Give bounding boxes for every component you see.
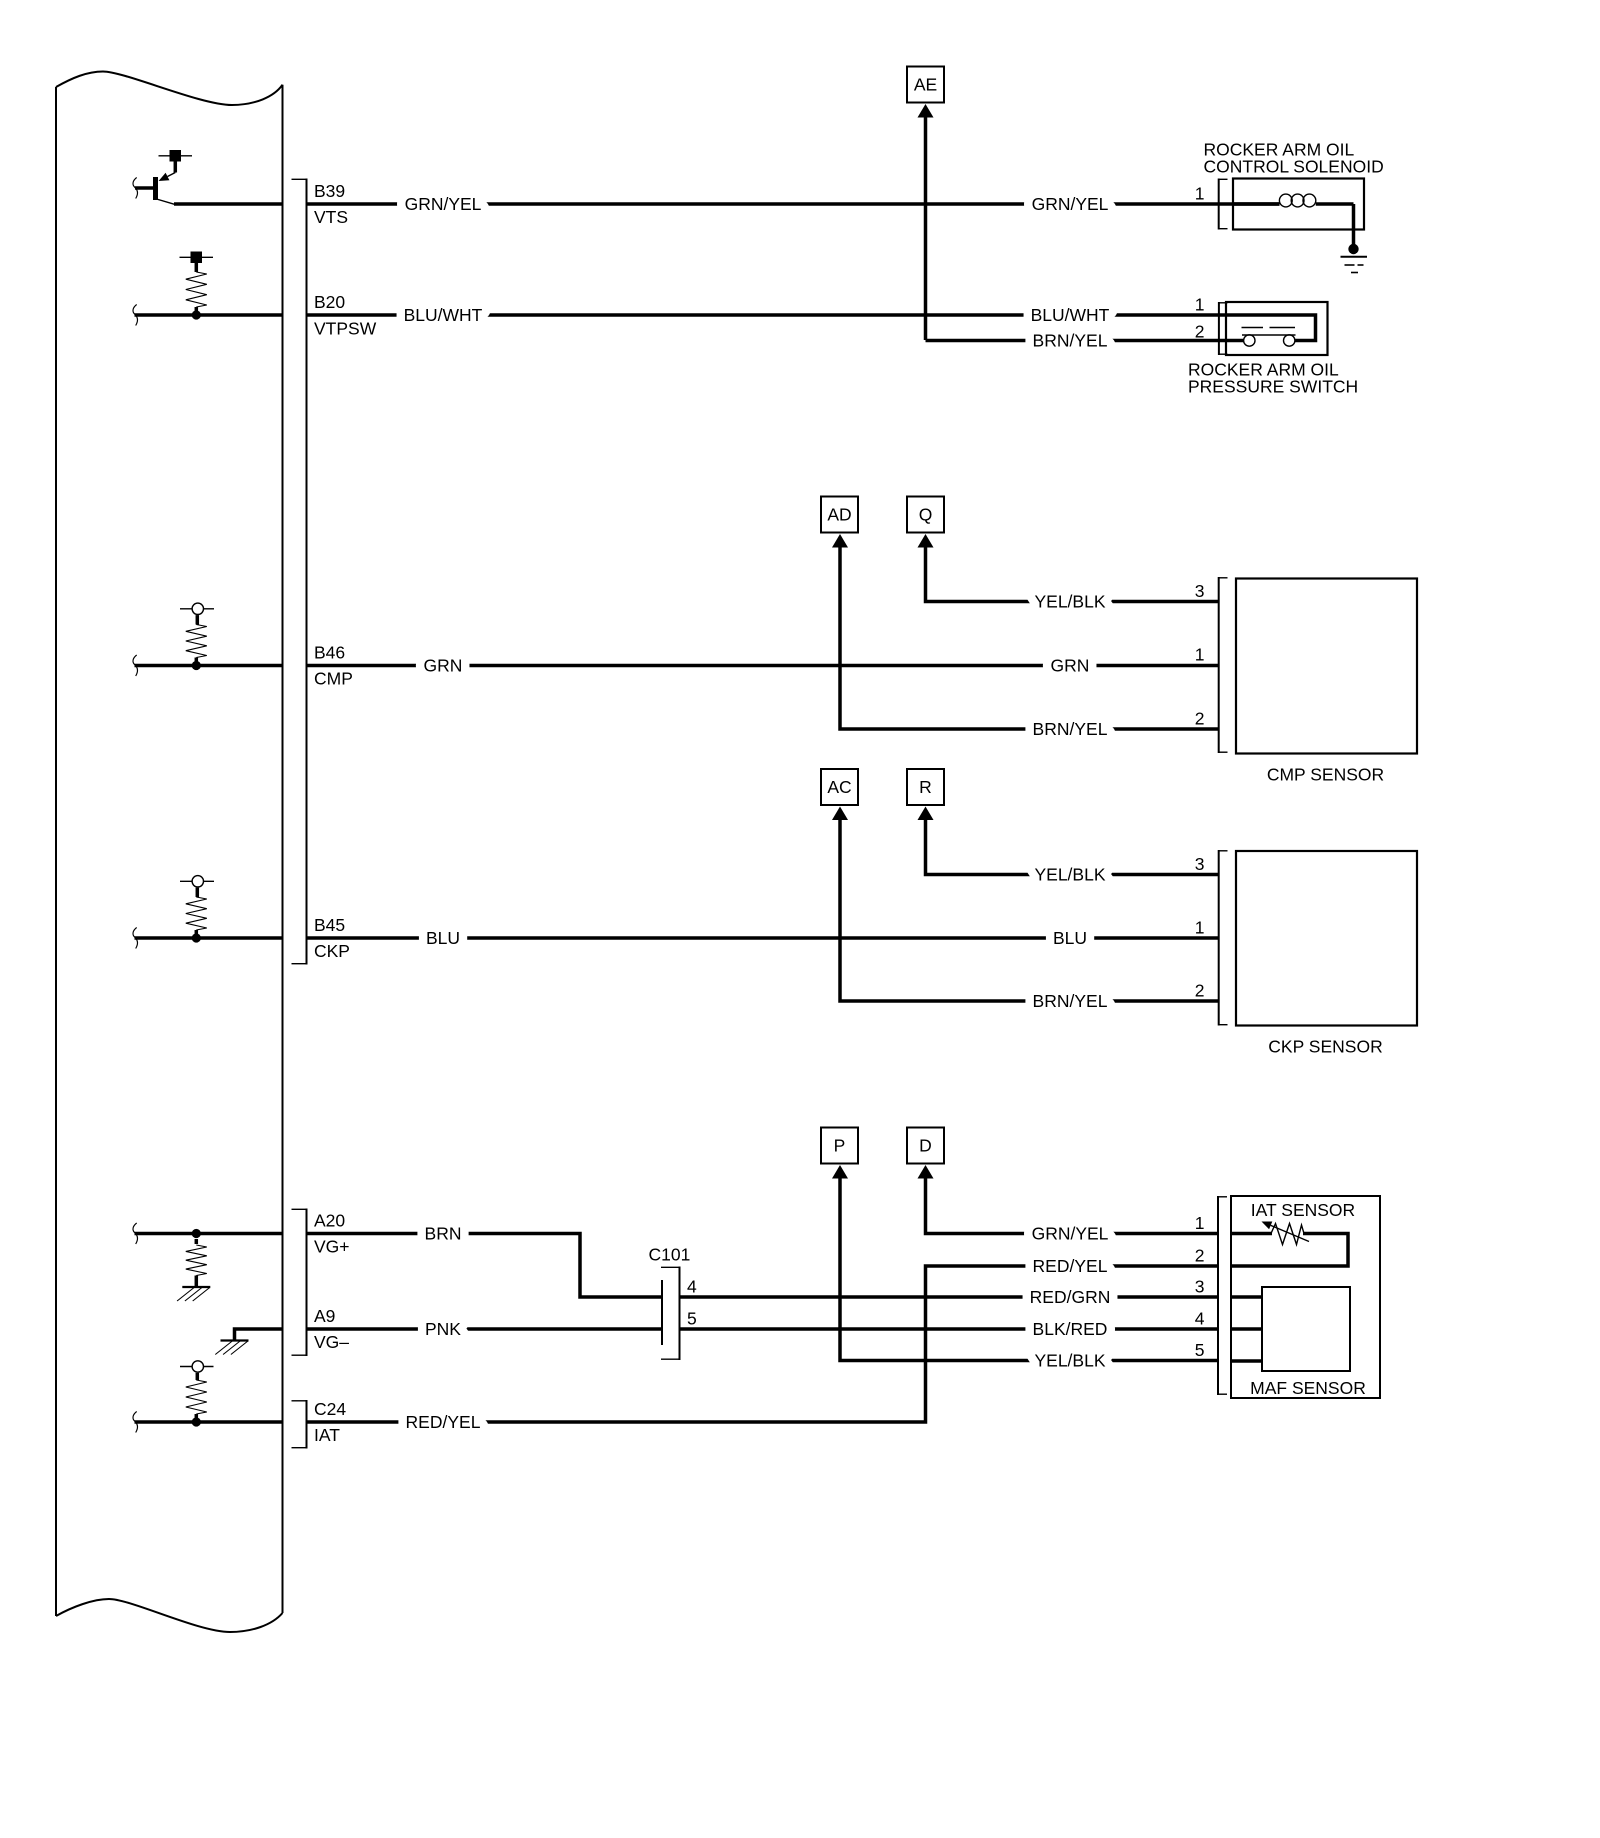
svg-text:4: 4 — [1195, 1309, 1205, 1329]
connector box R — [907, 769, 944, 805]
svg-text:1: 1 — [1195, 645, 1205, 665]
svg-text:BLK/RED: BLK/RED — [1033, 1319, 1108, 1339]
component box: rocker arm oil pressure switch — [1226, 302, 1328, 355]
svg-text:PNK: PNK — [425, 1319, 461, 1339]
ground symbol G101 — [1341, 256, 1368, 258]
svg-text:3: 3 — [1195, 581, 1205, 601]
ECM pin bracket C24 — [306, 1400, 308, 1449]
ECM connector block outline (torn edges) — [55, 87, 57, 1616]
ECM pin bracket B39-B45 — [306, 179, 308, 965]
wire A9 internal segment — [235, 1329, 283, 1341]
wire BRN A20 to C101 pin 4 — [307, 1234, 662, 1298]
junction dot A20 — [192, 1229, 201, 1238]
svg-text:BLU/WHT: BLU/WHT — [404, 305, 483, 325]
svg-text:PRESSURE SWITCH: PRESSURE SWITCH — [1188, 377, 1358, 397]
svg-text:Q: Q — [919, 505, 933, 525]
svg-text:YEL/BLK: YEL/BLK — [1034, 1351, 1105, 1371]
internal resistor to ground (VG+ A20) — [195, 1239, 199, 1244]
junction dot (solenoid ground) — [1348, 244, 1358, 254]
arrow to AC — [832, 807, 848, 821]
svg-text:D: D — [919, 1136, 932, 1156]
svg-text:BRN: BRN — [425, 1224, 462, 1244]
connector box P — [821, 1128, 858, 1164]
component box: CMP sensor — [1236, 579, 1417, 754]
svg-text:AC: AC — [827, 777, 851, 797]
svg-text:RED/YEL: RED/YEL — [406, 1412, 481, 1432]
svg-text:GRN/YEL: GRN/YEL — [1032, 1224, 1109, 1244]
svg-text:B45: B45 — [314, 915, 345, 935]
svg-text:B46: B46 — [314, 643, 345, 663]
arrow to Q — [918, 534, 934, 548]
pin bracket (solenoid) — [1218, 179, 1220, 230]
arrow to D — [918, 1165, 934, 1179]
arrow to AE — [918, 104, 934, 118]
component box: CKP sensor — [1236, 851, 1417, 1026]
svg-text:GRN/YEL: GRN/YEL — [1032, 194, 1109, 214]
wire A20 internal segment — [135, 1232, 283, 1236]
svg-text:C24: C24 — [314, 1399, 346, 1419]
wire B46 internal segment — [135, 664, 283, 668]
pin bracket (pressure switch) — [1218, 302, 1220, 355]
internal reference pull-up (CMP B46) — [180, 608, 214, 610]
svg-text:VTS: VTS — [314, 207, 348, 227]
svg-text:AD: AD — [827, 505, 851, 525]
svg-text:B20: B20 — [314, 292, 345, 312]
connector box AC — [821, 769, 858, 805]
connector box AD — [821, 497, 858, 533]
in-line connector C101 — [661, 1280, 663, 1345]
svg-text:GRN: GRN — [1051, 656, 1090, 676]
transistor Q1 (VTS output driver) — [170, 150, 182, 162]
connector box AE — [907, 67, 944, 103]
svg-text:A9: A9 — [314, 1306, 335, 1326]
wire GRN B46 to CMP sensor pin 1 — [307, 664, 1219, 668]
chassis ground (VG- A9) — [221, 1339, 249, 1341]
svg-text:3: 3 — [1195, 1277, 1205, 1297]
svg-text:CMP: CMP — [314, 669, 353, 689]
svg-text:AE: AE — [914, 75, 937, 95]
svg-text:GRN: GRN — [424, 656, 463, 676]
svg-text:YEL/BLK: YEL/BLK — [1034, 865, 1105, 885]
svg-text:BLU: BLU — [1053, 928, 1087, 948]
svg-text:RED/GRN: RED/GRN — [1030, 1287, 1111, 1307]
junction dot B45 — [192, 933, 201, 942]
svg-text:VTPSW: VTPSW — [314, 318, 377, 338]
internal reference pull-up (CKP B45) — [180, 880, 214, 882]
arrow to R — [918, 807, 934, 821]
svg-text:4: 4 — [687, 1277, 697, 1297]
wire B20 internal segment — [135, 313, 283, 317]
MAF pin stubs — [1231, 1295, 1262, 1299]
wire-break squiggle (Q1 base lead) — [133, 178, 137, 199]
wire BLU/WHT B20 to pressure switch pin 1 — [307, 315, 1316, 341]
connector box D — [907, 1128, 944, 1164]
svg-text:CMP SENSOR: CMP SENSOR — [1267, 765, 1384, 785]
svg-text:BRN/YEL: BRN/YEL — [1033, 331, 1108, 351]
MAF sensor inner element box — [1262, 1287, 1350, 1371]
svg-text:2: 2 — [1195, 709, 1205, 729]
svg-text:2: 2 — [1195, 322, 1205, 342]
svg-text:GRN/YEL: GRN/YEL — [405, 194, 482, 214]
svg-text:VG–: VG– — [314, 1332, 349, 1352]
solenoid coil L1 — [1233, 202, 1280, 206]
svg-text:IAT SENSOR: IAT SENSOR — [1251, 1200, 1355, 1220]
svg-text:CKP SENSOR: CKP SENSOR — [1268, 1037, 1382, 1057]
svg-text:CONTROL SOLENOID: CONTROL SOLENOID — [1204, 157, 1384, 177]
ECM pin bracket A20-A9 — [306, 1209, 308, 1357]
wire-break squiggle (B46) — [133, 655, 137, 676]
svg-text:1: 1 — [1195, 184, 1205, 204]
wire-break squiggle (B45) — [133, 928, 137, 949]
pressure switch S1 contacts — [1244, 335, 1255, 346]
svg-text:BRN/YEL: BRN/YEL — [1033, 719, 1108, 739]
svg-text:MAF SENSOR: MAF SENSOR — [1250, 1378, 1366, 1398]
wire B39 internal segment — [174, 202, 283, 206]
svg-text:3: 3 — [1195, 854, 1205, 874]
svg-text:BRN/YEL: BRN/YEL — [1033, 991, 1108, 1011]
thermistor RT1 (IAT) between pins 1 and 2 — [1231, 1232, 1272, 1236]
arrow to P — [832, 1165, 848, 1179]
wire GRN/YEL B39 to solenoid — [307, 202, 1280, 206]
svg-text:VG+: VG+ — [314, 1237, 350, 1257]
svg-text:1: 1 — [1195, 295, 1205, 315]
wire B45 internal segment — [135, 936, 283, 940]
svg-text:B39: B39 — [314, 181, 345, 201]
arrow to AD — [832, 534, 848, 548]
svg-text:5: 5 — [1195, 1340, 1205, 1360]
svg-text:RED/YEL: RED/YEL — [1033, 1256, 1108, 1276]
svg-text:IAT: IAT — [314, 1425, 340, 1445]
pin bracket (CKP sensor) — [1218, 850, 1220, 1026]
wire BLU B45 to CKP sensor pin 1 — [307, 936, 1219, 940]
wire RED/YEL C24 to MAF pin 2 — [307, 1266, 1218, 1422]
svg-text:BLU: BLU — [426, 928, 460, 948]
internal reference pull-up (IAT C24) — [180, 1366, 214, 1368]
connector box Q — [907, 497, 944, 533]
svg-text:R: R — [919, 777, 932, 797]
wire-break squiggle (B20) — [133, 305, 137, 326]
svg-text:1: 1 — [1195, 1213, 1205, 1233]
wire PNK A9 to C101 pin 5 — [307, 1327, 662, 1331]
junction dot C24 — [192, 1417, 201, 1426]
svg-text:C101: C101 — [649, 1245, 691, 1265]
internal pull-up resistor (VTPSW) to B+ — [191, 252, 203, 264]
svg-text:2: 2 — [1195, 981, 1205, 1001]
wire-break squiggle (A20) — [133, 1223, 137, 1244]
svg-text:P: P — [834, 1136, 846, 1156]
svg-text:CKP: CKP — [314, 941, 350, 961]
chassis ground (A20 resistor) — [182, 1286, 210, 1288]
svg-text:2: 2 — [1195, 1246, 1205, 1266]
component box: IAT/MAF sensor — [1231, 1196, 1380, 1398]
wire C24 internal segment — [135, 1420, 283, 1424]
svg-text:1: 1 — [1195, 918, 1205, 938]
wire BRN/YEL pressure switch pin 2 to AE — [926, 339, 1244, 343]
wire RED/GRN C101 pin 4 to MAF pin 3 — [680, 1295, 1218, 1299]
wire BLK/RED C101 pin 5 to MAF pin 4 — [680, 1327, 1218, 1331]
svg-text:5: 5 — [687, 1309, 697, 1329]
wire-break squiggle (C24) — [133, 1412, 137, 1433]
svg-text:A20: A20 — [314, 1211, 345, 1231]
junction dot B46 — [192, 661, 201, 670]
pin bracket (CMP sensor) — [1218, 577, 1220, 753]
component box: rocker arm oil control solenoid — [1233, 179, 1364, 230]
svg-text:BLU/WHT: BLU/WHT — [1031, 305, 1110, 325]
junction dot B20 — [192, 310, 201, 319]
pin bracket (MAF sensor) — [1217, 1196, 1219, 1395]
svg-text:YEL/BLK: YEL/BLK — [1034, 592, 1105, 612]
